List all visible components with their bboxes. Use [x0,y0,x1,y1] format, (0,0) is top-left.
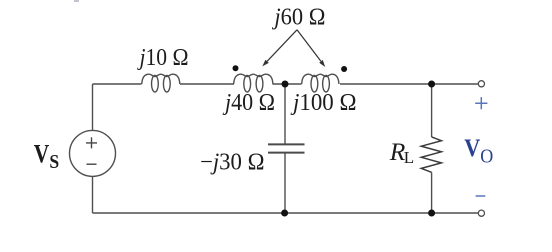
source minus sign [87,163,97,165]
wire middle branch lower [284,153,286,213]
wire bottom horizontal [93,212,479,214]
dot marker left (coupling polarity) [233,65,239,71]
svg-text:S: S [49,152,59,173]
wire left vertical above source [92,84,94,130]
arrow right from j60 label [297,30,325,67]
wire right branch lower [431,172,433,213]
svg-text:j100 Ω: j100 Ω [290,90,356,116]
svg-text:j10 Ω: j10 Ω [137,45,189,71]
node junction bottom right [428,210,435,217]
wire left vertical below source [92,176,94,213]
stray mark top edge [74,0,79,2]
output plus sign blue [475,97,487,109]
wire j40 to junction to j100 [273,83,302,85]
node junction bottom middle [281,210,288,217]
node junction top middle [282,81,289,88]
svg-text:V: V [34,139,50,169]
svg-text:L: L [404,148,414,167]
node junction top right [428,81,435,88]
svg-text:O: O [480,146,493,168]
terminal bottom right open circle [478,210,484,216]
svg-text:−j30 Ω: −j30 Ω [200,149,265,175]
wire between j10 and j40 [180,83,234,85]
dot marker right (coupling polarity) [341,66,347,72]
capacitor -j30 plates [268,144,305,152]
terminal top right open circle [478,81,484,87]
svg-text:j60 Ω: j60 Ω [272,5,326,31]
inductor j100 [302,74,339,92]
inductor j40 [234,74,273,92]
inductor j10 [142,74,180,92]
voltage source VS circle [70,130,116,176]
wire right branch upper [431,84,433,137]
output minus sign blue [476,195,486,197]
wire top-left horizontal [93,83,142,85]
svg-text:j40 Ω: j40 Ω [222,90,275,116]
source plus sign [86,137,97,148]
resistor RL zigzag [421,137,441,172]
svg-text:V: V [464,135,480,162]
arrow left from j60 label [262,30,297,67]
wire j100 to output node [340,83,478,85]
wire middle branch upper [284,84,286,144]
